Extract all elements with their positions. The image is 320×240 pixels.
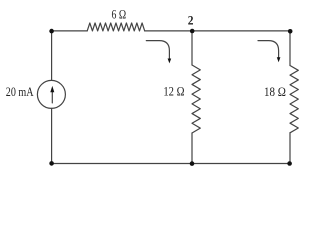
svg-text:18 Ω: 18 Ω bbox=[264, 84, 286, 99]
svg-text:12 Ω: 12 Ω bbox=[163, 85, 184, 99]
svg-text:20 mA: 20 mA bbox=[6, 86, 34, 99]
svg-text:6 Ω: 6 Ω bbox=[111, 8, 126, 21]
svg-text:2: 2 bbox=[188, 13, 194, 28]
